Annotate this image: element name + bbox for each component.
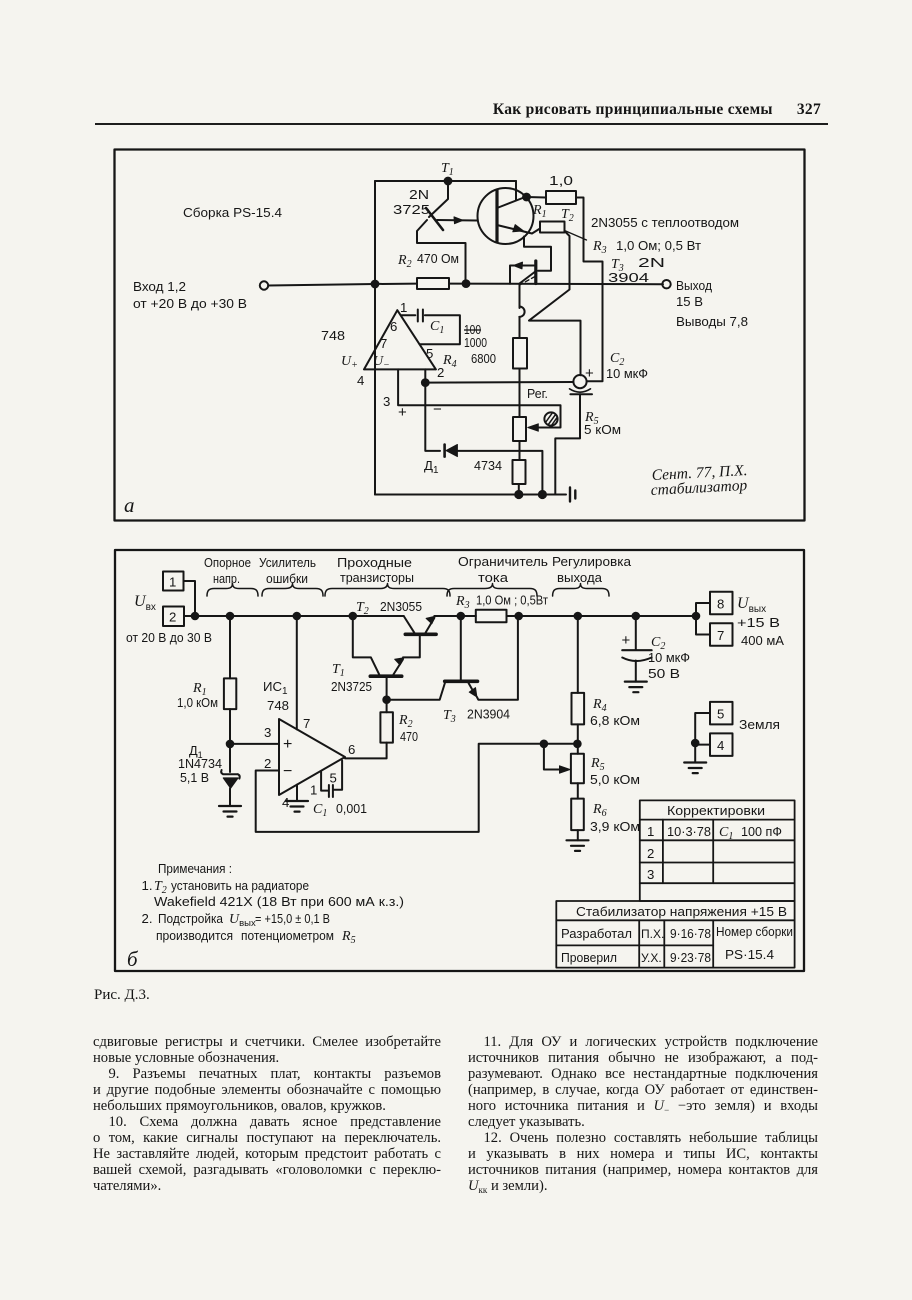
resistor R6 3,9 кОм [571, 799, 584, 831]
svg-text:T2: T2 [356, 600, 369, 617]
svg-text:Подстройка: Подстройка [158, 911, 224, 926]
svg-text:R1: R1 [532, 203, 547, 220]
wire zener branch [425, 383, 542, 495]
frame of figure a [115, 150, 805, 521]
wire pin3 [230, 743, 279, 745]
svg-text:1,0 Ом; 0,5 Вт: 1,0 Ом; 0,5 Вт [616, 238, 701, 253]
node pin7 tap [294, 613, 301, 620]
svg-text:470 Ом: 470 Ом [417, 251, 459, 266]
output terminal [662, 280, 670, 288]
svg-text:R3: R3 [455, 594, 470, 611]
svg-text:2N: 2N [409, 187, 429, 202]
node chain R4-R5 [574, 741, 581, 748]
brace pass transistors [325, 584, 450, 597]
svg-text:5,1 В: 5,1 В [180, 770, 209, 785]
node T1 collector tap [350, 613, 357, 620]
svg-text:7: 7 [380, 336, 387, 351]
node C2 tap [633, 613, 640, 620]
svg-text:установить на радиаторе: установить на радиаторе [171, 878, 309, 893]
svg-text:производится: производится [156, 928, 233, 943]
svg-text:+: + [283, 736, 292, 753]
svg-text:Вход 1,2: Вход 1,2 [133, 279, 186, 294]
svg-text:748: 748 [267, 698, 289, 713]
svg-text:6800: 6800 [471, 351, 496, 366]
svg-text:T1: T1 [441, 161, 454, 178]
svg-text:от 20 В до 30 В: от 20 В до 30 В [126, 630, 212, 645]
svg-text:T2: T2 [561, 207, 574, 224]
wire pin2 node [424, 369, 426, 382]
svg-text:1: 1 [169, 575, 176, 590]
node feedback/wiper [541, 741, 548, 748]
svg-text:Д1: Д1 [424, 458, 439, 476]
svg-text:2.: 2. [142, 911, 153, 926]
svg-text:1,0 кОм: 1,0 кОм [177, 695, 218, 710]
notes [142, 861, 405, 946]
transistor T2 2N3055 [403, 616, 476, 657]
node R1 tap [227, 613, 234, 620]
svg-text:748: 748 [321, 328, 345, 343]
svg-text:ИС1: ИС1 [263, 679, 288, 697]
svg-text:U+: U+ [341, 354, 358, 371]
svg-text:Ограничитель: Ограничитель [458, 554, 548, 569]
svg-text:2: 2 [264, 756, 271, 771]
svg-text:10 мкФ: 10 мкФ [648, 650, 690, 665]
svg-text:= +15,0 ± 0,1 В: = +15,0 ± 0,1 В [255, 911, 330, 926]
terminal 1 [163, 572, 184, 591]
wire pin2 + feedback [256, 744, 578, 832]
svg-text:6: 6 [348, 742, 355, 757]
transistor Q (circle) [478, 188, 541, 244]
body text: left column [93, 1034, 441, 1194]
node after terminal 2 [192, 613, 199, 620]
wire top drop to Q collector [515, 181, 517, 200]
svg-text:Усилитель: Усилитель [259, 555, 316, 570]
svg-text:+: + [398, 404, 407, 421]
svg-text:R2: R2 [398, 713, 413, 730]
resistor 1,0 (R1) [527, 196, 547, 199]
svg-text:9·16·78: 9·16·78 [670, 926, 711, 941]
diode Д1 4734 [445, 445, 458, 457]
resistor R3 [476, 610, 507, 623]
svg-text:3,9 кОм: 3,9 кОм [590, 819, 640, 834]
svg-text:T3: T3 [443, 708, 456, 725]
figure caption [94, 987, 150, 1004]
svg-text:4: 4 [282, 795, 289, 810]
wire pin7 [296, 616, 298, 729]
svg-text:R3: R3 [592, 239, 607, 256]
capacitor C1 0,001 [334, 761, 342, 790]
node T1 base / R2 / T3 collector [383, 696, 390, 703]
node R4 chain top [575, 613, 582, 620]
body text: right column [468, 1034, 818, 1194]
svg-text:3904: 3904 [608, 270, 649, 285]
svg-text:10·3·78: 10·3·78 [667, 824, 711, 839]
bottom nodes [515, 491, 522, 498]
wire loop top [375, 180, 516, 182]
terminal 2 [163, 607, 184, 627]
svg-text:Uвых: Uвых [737, 595, 766, 615]
svg-text:R5: R5 [341, 929, 356, 946]
svg-text:R2: R2 [397, 253, 412, 270]
node R3 right [515, 613, 522, 620]
svg-text:1.: 1. [142, 878, 153, 893]
svg-text:R6: R6 [592, 802, 607, 819]
node R1/zener/pin3 [227, 741, 234, 748]
node T1 [445, 178, 452, 185]
bus right of R3 [507, 615, 697, 617]
svg-text:4: 4 [717, 738, 724, 753]
wire loop left vertical [374, 181, 376, 495]
section headings [204, 554, 632, 586]
svg-text:8: 8 [717, 597, 724, 612]
svg-text:Wakefield 421X (18 Вт при 600: Wakefield 421X (18 Вт при 600 мА к.з.) [154, 894, 404, 909]
svg-text:T1: T1 [332, 662, 345, 679]
ground (bottom right) [570, 488, 575, 502]
brace reference [207, 584, 258, 597]
brace error amp [262, 584, 323, 597]
svg-text:2: 2 [647, 846, 654, 861]
svg-text:5,0 кОм: 5,0 кОм [590, 772, 640, 787]
svg-text:ошибки: ошибки [266, 571, 308, 586]
svg-text:−: − [433, 401, 442, 418]
ground under C2 [625, 682, 647, 693]
svg-text:PS·15.4: PS·15.4 [725, 947, 774, 962]
svg-text:R4: R4 [442, 353, 457, 370]
svg-text:Номер сборки: Номер сборки [716, 924, 793, 939]
wire pin6 to R2 [345, 743, 387, 759]
labels right top [591, 215, 739, 285]
transistor T3 2N3904 [387, 616, 518, 700]
svg-text:3725: 3725 [393, 202, 430, 217]
ground under zener [219, 806, 241, 817]
svg-text:1N4734: 1N4734 [178, 756, 222, 771]
svg-text:Стабилизатор напряжения +15 В: Стабилизатор напряжения +15 В [576, 904, 787, 919]
svg-text:У.Х.: У.Х. [641, 951, 662, 965]
corrections table [640, 800, 795, 901]
value 100 struck out, 1000, 6800 [464, 322, 496, 366]
svg-text:6,8 кОм: 6,8 кОм [590, 713, 640, 728]
svg-text:Корректировки: Корректировки [667, 803, 765, 818]
wire emitter chain down from R3 [524, 237, 551, 271]
svg-text:1,0 Ом ; 0,5Вт: 1,0 Ом ; 0,5Вт [476, 593, 548, 608]
SCHEMATIC B (clean drawing) [0, 545, 912, 985]
svg-text:напр.: напр. [213, 571, 240, 586]
frame of figure б [115, 550, 804, 971]
svg-text:1000: 1000 [464, 335, 487, 350]
svg-text:100 пФ: 100 пФ [741, 824, 782, 839]
transistor 2N3725 sketch [417, 181, 477, 284]
svg-text:7: 7 [303, 716, 310, 731]
svg-text:Примечания :: Примечания : [158, 861, 232, 876]
svg-text:5: 5 [330, 771, 337, 786]
svg-text:C1: C1 [719, 825, 733, 842]
terminal 5 [710, 702, 733, 725]
resistor R2 470 [380, 712, 393, 742]
svg-text:от +20 В до +30 В: от +20 В до +30 В [133, 296, 247, 311]
svg-text:R4: R4 [592, 697, 607, 714]
resistor R4 6,8 кОм [577, 616, 579, 693]
terminal 7 [696, 616, 710, 635]
handwritten signature [650, 462, 748, 499]
svg-text:Выход: Выход [676, 278, 712, 293]
wire pin4 + ground [296, 785, 298, 801]
node R2 right [463, 280, 470, 287]
node R3 left [458, 613, 465, 620]
wire R3 right to C2 top [529, 231, 581, 375]
svg-text:Разработал: Разработал [561, 926, 632, 941]
potentiometer R5 [513, 417, 526, 441]
svg-text:выхода: выхода [557, 570, 603, 585]
svg-text:1: 1 [310, 783, 317, 798]
svg-text:1: 1 [400, 300, 407, 315]
svg-text:Uвх: Uвх [134, 593, 156, 613]
svg-text:+: + [585, 365, 594, 382]
brace current limiter [447, 584, 537, 597]
svg-text:15 В: 15 В [676, 294, 703, 309]
svg-text:Выводы 7,8: Выводы 7,8 [676, 314, 748, 329]
svg-text:2N3904: 2N3904 [467, 707, 510, 722]
svg-text:П.Х.: П.Х. [641, 927, 664, 941]
svg-text:Рег.: Рег. [527, 386, 548, 401]
svg-text:Сборка PS-15.4: Сборка PS-15.4 [183, 205, 282, 220]
svg-text:транзисторы: транзисторы [340, 570, 414, 585]
adjust symbol (hatched circle) [544, 412, 557, 425]
title block table [556, 901, 794, 968]
svg-text:а: а [124, 493, 135, 517]
svg-text:9·23·78: 9·23·78 [670, 950, 711, 965]
brace output adjust [553, 584, 609, 597]
wire terminal 1 [184, 581, 196, 616]
wire input to loop [268, 284, 375, 286]
svg-text:потенциометром: потенциометром [241, 928, 334, 943]
svg-text:U−: U− [373, 354, 390, 371]
resistor R1 [229, 616, 231, 678]
vertical chain x=519.5: from T3 down [520, 271, 537, 308]
svg-text:б: б [127, 947, 139, 971]
ground under R6 [567, 840, 589, 851]
input labels [133, 279, 247, 311]
node output terminals [693, 613, 700, 620]
svg-text:3: 3 [264, 725, 271, 740]
svg-text:2N: 2N [638, 255, 665, 270]
svg-text:R5: R5 [590, 756, 605, 773]
wire pin3 to pot wiper [398, 369, 560, 427]
transistor T3 sketch [510, 261, 536, 285]
zener Д1 1N4734 [229, 744, 231, 772]
terminal 4 [710, 733, 733, 756]
terminal 8 [696, 603, 710, 616]
svg-text:2N3055: 2N3055 [380, 599, 422, 614]
potentiometer R5 5,0 кОм [571, 754, 584, 784]
resistor 4734 (vertical) [513, 460, 526, 484]
svg-text:5: 5 [426, 346, 433, 361]
wire R1 to output node [576, 198, 603, 382]
svg-text:1: 1 [647, 824, 654, 839]
page header [0, 101, 821, 119]
svg-text:+15 В: +15 В [737, 615, 780, 630]
wiper arm into R5 [544, 744, 562, 770]
op-amp 748 [364, 310, 436, 369]
svg-text:2N3055 с теплоотводом: 2N3055 с теплоотводом [591, 215, 739, 230]
svg-text:4: 4 [357, 373, 364, 388]
resistor R4 6800 (vertical) [513, 338, 527, 369]
svg-text:5 кОм: 5 кОм [584, 422, 621, 437]
resistor R3 (on T2) [540, 222, 565, 233]
svg-text:6: 6 [390, 319, 397, 334]
svg-text:400 мА: 400 мА [741, 633, 784, 648]
capacitor C2 [555, 375, 592, 495]
capacitor C1 [401, 315, 460, 344]
svg-text:Земля: Земля [739, 717, 780, 732]
svg-text:C1: C1 [313, 802, 327, 819]
svg-text:Регулировка: Регулировка [552, 554, 632, 569]
SCHEMATIC A (rough sketch) [0, 0, 912, 545]
svg-text:470: 470 [400, 729, 418, 744]
svg-text:Проходные: Проходные [337, 555, 412, 570]
svg-text:Uвых: Uвых [229, 912, 256, 929]
svg-text:−: − [283, 763, 292, 780]
svg-text:7: 7 [717, 628, 724, 643]
wire output rail [375, 283, 663, 286]
svg-text:3: 3 [383, 394, 390, 409]
svg-text:50 В: 50 В [648, 666, 680, 681]
wire bottom rail [375, 494, 566, 496]
svg-text:3: 3 [647, 867, 654, 882]
wires terminals 5/4 to ground [695, 713, 710, 763]
wire pin2 to C2 [425, 381, 573, 384]
wire terminal 2 / main bus [184, 615, 404, 617]
svg-text:2: 2 [169, 610, 176, 625]
svg-text:Проверил: Проверил [561, 950, 617, 965]
crossover hop [519, 307, 524, 317]
node loop-input [372, 281, 379, 288]
svg-text:+: + [622, 632, 631, 649]
svg-text:2N3725: 2N3725 [331, 679, 372, 694]
header rule [95, 123, 828, 125]
svg-text:тока: тока [478, 570, 509, 585]
resistor R2 470 [417, 278, 449, 289]
svg-text:Опорное: Опорное [204, 555, 251, 570]
svg-text:1,0: 1,0 [549, 173, 573, 188]
transistor T1 2N3725 [353, 616, 404, 700]
svg-text:0,001: 0,001 [336, 801, 367, 816]
capacitor C2 10 мкФ 50 В [635, 616, 637, 650]
node collector [523, 194, 530, 201]
svg-text:4734: 4734 [474, 458, 502, 473]
svg-text:10 мкФ: 10 мкФ [606, 366, 648, 381]
svg-text:C1: C1 [430, 319, 444, 336]
leader line to R3 text [565, 231, 587, 241]
svg-text:5: 5 [717, 707, 724, 722]
input terminal [260, 281, 268, 289]
op-amp IC1 748 [279, 719, 345, 795]
